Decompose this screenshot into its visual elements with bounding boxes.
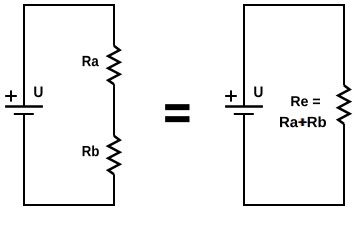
wire: right circuit upper loop (left wire, top wire, right wire down to Re) (244, 5, 344, 107)
battery U (left): long positive plate (5, 105, 43, 107)
battery U (right): long positive plate (225, 105, 263, 107)
resistor Rb (108, 136, 119, 174)
resistor Ra (108, 46, 119, 84)
battery U (left): short negative plate (14, 113, 34, 115)
wire: right circuit lower loop (right wire below Re, bottom wire, left wire up to battery minus plate) (244, 114, 344, 205)
battery U (right): short negative plate (234, 113, 254, 115)
label Rb (83, 146, 99, 157)
label U (right battery) (254, 87, 262, 98)
label Re = (291, 96, 320, 106)
label Ra+Rb: orange left fringe of the plus (298, 118, 305, 126)
plus polarity mark (left battery) (5, 90, 17, 101)
resistor Re (338, 85, 349, 124)
label Ra+Rb: blue right fringe of the plus (300, 118, 307, 126)
wire: left circuit upper loop (left wire, top wire, right wire down to Ra) (24, 5, 114, 107)
label U (left battery) (34, 87, 42, 98)
label Ra+Rb (280, 116, 326, 127)
label Ra (83, 56, 99, 66)
wire: between Ra and Rb (113, 84, 115, 136)
plus polarity mark (right battery) (225, 90, 237, 101)
wire: left circuit lower loop (right wire below Rb, bottom wire, left wire up to battery minus plate) (24, 114, 114, 205)
equals sign between the two circuits (165, 104, 189, 122)
